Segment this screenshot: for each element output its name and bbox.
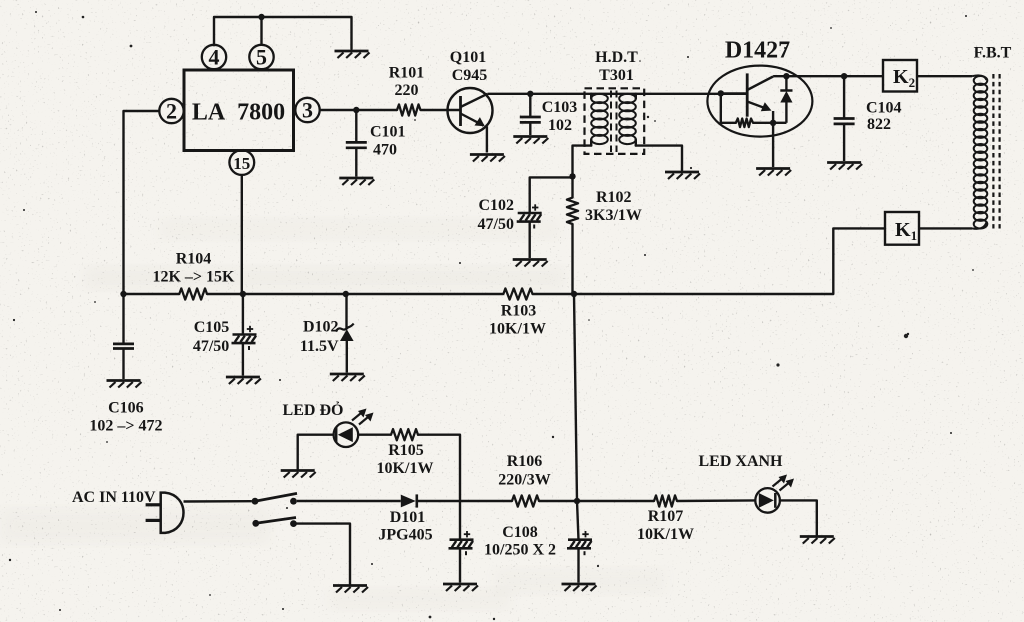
- svg-text:C105: C105: [194, 319, 230, 336]
- svg-text:C945: C945: [452, 67, 488, 84]
- capacitor C108a polarized: [449, 531, 474, 555]
- resistor base-emitter inside D1427: [721, 93, 773, 127]
- label C108 value: [484, 542, 556, 559]
- wire C104 upper: [843, 76, 845, 118]
- label T301: [599, 67, 634, 84]
- wire LED-DO to R105: [358, 434, 391, 436]
- resistor R105: [391, 429, 418, 440]
- ground T301 secondary: [665, 172, 700, 179]
- transistor D1427 base bar: [746, 73, 749, 116]
- junction bottom bus node: [574, 498, 580, 504]
- label C105 value: [193, 338, 229, 355]
- label D1427: [725, 38, 790, 64]
- label R103: [501, 303, 537, 320]
- svg-text:220/3W: 220/3W: [498, 472, 550, 489]
- resistor R103: [503, 288, 532, 299]
- relay contact K1 box: [885, 212, 919, 245]
- wire bus R103 to node: [533, 293, 575, 295]
- junction C101 tap: [353, 107, 359, 113]
- svg-text:220: 220: [395, 82, 419, 99]
- svg-text:Q101: Q101: [450, 49, 486, 66]
- svg-text:C102: C102: [478, 197, 514, 214]
- ground C102: [513, 260, 548, 267]
- label R106: [507, 453, 543, 470]
- label C103: [542, 99, 578, 116]
- wire C106 lower: [122, 349, 124, 380]
- transistor Q101 base bar: [459, 96, 462, 126]
- ground D102: [330, 374, 365, 381]
- label R105: [388, 442, 424, 459]
- wire C101 lower: [355, 148, 357, 177]
- pin 15 circle: [229, 150, 254, 175]
- resistor R102 vertical: [567, 198, 578, 224]
- label R104 value: [152, 269, 235, 286]
- svg-text:102: 102: [548, 117, 572, 134]
- wire top net pins 4-5 to ground: [214, 17, 352, 49]
- wire R101 to Q101 base: [421, 109, 461, 111]
- label C102: [478, 197, 514, 214]
- svg-text:JPG405: JPG405: [378, 527, 432, 544]
- wire D101 to R106: [417, 500, 512, 502]
- wire bus D102 to R103: [346, 293, 504, 295]
- svg-text:R102: R102: [596, 189, 632, 206]
- wire R106 to R107: [539, 500, 654, 502]
- capacitor C105 polarized: [232, 326, 257, 350]
- ground D1427 emitter: [756, 169, 791, 176]
- wire switch top to D101: [297, 500, 401, 502]
- wire T301 primary bottom to node: [573, 146, 592, 177]
- svg-text:3K3/1W: 3K3/1W: [585, 207, 642, 224]
- led LED-XANH light arrows: [773, 475, 795, 491]
- led LED-XANH body: [755, 488, 780, 513]
- label R102: [596, 189, 632, 206]
- svg-text:10K/1W: 10K/1W: [377, 460, 434, 477]
- label R107: [648, 508, 684, 525]
- label C102 value: [478, 216, 514, 233]
- junction bus left C106: [120, 291, 126, 297]
- capacitor C101: [346, 142, 367, 147]
- led LED-DO triangle: [336, 427, 353, 442]
- svg-text:R106: R106: [507, 453, 543, 470]
- ground top-right of LA7800: [335, 51, 370, 58]
- svg-text:15: 15: [233, 154, 250, 173]
- svg-text:10K/1W: 10K/1W: [489, 321, 546, 338]
- wire K1 to FBT: [919, 227, 972, 229]
- svg-text:H.D.T: H.D.T: [595, 49, 638, 66]
- ground C108a: [443, 584, 478, 591]
- svg-text:D102: D102: [303, 319, 339, 336]
- wire pin 15 riser: [241, 175, 243, 294]
- svg-text:822: 822: [867, 116, 891, 133]
- svg-text:C106: C106: [108, 400, 144, 417]
- svg-text:D101: D101: [390, 509, 426, 526]
- wire D1427 collector to K2: [773, 75, 883, 77]
- junction bus D102: [343, 291, 349, 297]
- flyback FBT core lines: [993, 74, 999, 229]
- svg-text:102 –> 472: 102 –> 472: [89, 418, 162, 435]
- svg-text:R104: R104: [176, 251, 212, 268]
- label Q101 part: [452, 67, 488, 84]
- wire K2 to FBT: [917, 75, 972, 77]
- label H.D.T: [595, 49, 638, 66]
- wire R102 to bus: [571, 224, 573, 294]
- resistor R104: [179, 288, 207, 299]
- transistor Q101 body: [448, 88, 493, 133]
- ground LED-DO: [281, 471, 316, 478]
- transformer T301 core lines: [611, 91, 617, 153]
- wire C105 lower: [242, 343, 244, 375]
- wire LED-DO left to ground: [298, 435, 334, 469]
- scan smudge bands: [0, 218, 665, 610]
- diode damper inside D1427: [773, 76, 792, 123]
- transistor D1427 collector: [747, 77, 773, 91]
- junction bus main node: [571, 291, 577, 297]
- svg-text:3: 3: [302, 98, 313, 123]
- wire K1 to bus: [833, 228, 885, 294]
- capacitor C103: [520, 117, 541, 122]
- svg-text:47/50: 47/50: [478, 216, 514, 233]
- pin 4 circle: [202, 45, 226, 70]
- wire D102 upper: [345, 294, 347, 329]
- wire Q101 collector to D1427 base: [488, 93, 748, 95]
- capacitor C104: [834, 119, 855, 124]
- transformer T301 primary winding: [591, 94, 608, 146]
- label R107 value: [637, 526, 694, 543]
- junction C104 tap: [841, 73, 847, 79]
- switch S1a: [252, 493, 297, 504]
- svg-text:D1427: D1427: [725, 38, 790, 64]
- wire R105 to DC node: [418, 435, 460, 501]
- svg-text:T301: T301: [599, 67, 634, 84]
- wire C108b lower: [577, 548, 579, 582]
- resistor R107: [654, 495, 677, 506]
- resistor R106: [512, 495, 539, 506]
- label D101 part: [378, 527, 432, 544]
- wire R107 to LED XANH: [677, 499, 756, 502]
- svg-text:470: 470: [373, 142, 397, 159]
- svg-text:10/250 X 2: 10/250 X 2: [484, 542, 556, 559]
- svg-text:2: 2: [166, 99, 177, 124]
- wire C102 lower: [529, 222, 531, 258]
- label LED DO: [283, 400, 344, 419]
- pin 2 circle: [159, 99, 183, 124]
- svg-text:C104: C104: [866, 100, 902, 117]
- led LED-XANH triangle: [759, 493, 776, 508]
- wire bus segment left: [124, 293, 180, 295]
- svg-text:4: 4: [209, 45, 220, 70]
- ground C105: [226, 377, 261, 384]
- svg-text:R101: R101: [389, 65, 425, 82]
- wire C108b upper: [577, 501, 579, 540]
- wire D102 lower: [346, 341, 348, 373]
- plug AC body: [161, 493, 184, 533]
- label R101: [389, 65, 425, 82]
- label C103 value: [548, 117, 572, 134]
- wire D1427 base link: [721, 92, 747, 94]
- junction D1427 base: [718, 90, 724, 96]
- transistor D1427 outline: [707, 66, 812, 137]
- svg-text:AC IN 110V: AC IN 110V: [72, 489, 156, 506]
- label C108: [502, 524, 538, 541]
- label R102 value: [585, 207, 642, 224]
- transformer T301 secondary winding: [619, 94, 636, 146]
- svg-text:R105: R105: [388, 442, 424, 459]
- wire pin 5 riser: [260, 17, 262, 45]
- junction top net above pin 5: [258, 14, 264, 20]
- wire C108a upper: [459, 501, 461, 540]
- svg-text:5: 5: [256, 45, 267, 70]
- label R105 value: [377, 460, 434, 477]
- transistor D1427 emitter: [747, 102, 773, 123]
- ground Q101 emitter: [470, 155, 505, 162]
- resistor R101: [397, 104, 421, 115]
- wire C105 upper: [242, 294, 244, 335]
- label D102: [303, 319, 339, 336]
- svg-text:12K –> 15K: 12K –> 15K: [152, 269, 235, 286]
- transistor Q101 collector: [461, 94, 488, 107]
- wire C108a lower: [459, 548, 461, 582]
- svg-text:10K/1W: 10K/1W: [637, 526, 694, 543]
- wire C103 upper: [529, 94, 531, 117]
- label LED XANH: [698, 453, 783, 470]
- label F.B.T: [974, 45, 1012, 62]
- svg-text:C108: C108: [502, 524, 538, 541]
- wire C104 lower: [843, 124, 845, 161]
- svg-text:F.B.T: F.B.T: [974, 45, 1012, 62]
- flyback FBT winding: [972, 75, 987, 228]
- capacitor C108b polarized: [567, 531, 592, 555]
- label R101 value: [395, 82, 419, 99]
- wire pin 2 to left bus: [124, 111, 160, 294]
- label R106 value: [498, 472, 550, 489]
- ground AC return: [333, 586, 368, 593]
- ic U1 LA 7800 body: [184, 70, 294, 151]
- plug AC prongs: [146, 505, 161, 521]
- wire bus R104 to pin15: [207, 293, 243, 295]
- label C106 value: [89, 418, 162, 435]
- svg-text:R107: R107: [648, 508, 684, 525]
- svg-text:47/50: 47/50: [193, 338, 229, 355]
- wire LED-XANH to ground: [780, 500, 817, 535]
- ground C104: [827, 163, 862, 170]
- label C101 value: [373, 142, 397, 159]
- ground C106: [107, 381, 142, 388]
- label C104: [866, 100, 902, 117]
- capacitor C102 polarized: [517, 204, 542, 228]
- wire T301 secondary bottom to ground: [636, 146, 682, 171]
- wire C103 lower: [529, 122, 531, 135]
- label C105: [194, 319, 230, 336]
- junction bus pin15/C105: [240, 291, 246, 297]
- junction C103 tap: [527, 91, 533, 97]
- wire bus pin15 to D102: [243, 293, 346, 295]
- transistor Q101 emitter: [461, 114, 487, 153]
- label AC IN 110V: [72, 489, 156, 506]
- junction T301 bottom node: [569, 173, 575, 179]
- wire bus node down to bottom bus: [574, 294, 577, 501]
- wire node to R102: [571, 176, 573, 197]
- ground C103: [513, 137, 548, 144]
- ground C108b: [562, 584, 597, 591]
- capacitor C106: [113, 344, 134, 349]
- label D101: [390, 509, 426, 526]
- label Q101: [450, 49, 486, 66]
- junction D1427 emitter node: [770, 120, 776, 126]
- diode zener D102: [336, 324, 354, 341]
- ground C101: [339, 178, 374, 185]
- label C101: [370, 124, 406, 141]
- label C104 value: [867, 116, 891, 133]
- svg-text:LED ĐỎ: LED ĐỎ: [283, 400, 344, 419]
- label D102 value: [300, 338, 339, 355]
- svg-text:LED XANH: LED XANH: [698, 453, 783, 470]
- svg-text:C101: C101: [370, 124, 406, 141]
- svg-text:C103: C103: [542, 99, 578, 116]
- wire D1427 emitter to ground: [772, 123, 774, 167]
- pin 3 circle: [295, 98, 319, 123]
- led LED-DO light arrows: [352, 409, 374, 425]
- switch S1b: [252, 518, 296, 527]
- svg-text:R103: R103: [501, 303, 537, 320]
- wire C106 upper: [122, 294, 124, 344]
- diode D101: [401, 494, 417, 507]
- led LED-DO body: [334, 422, 359, 447]
- wire bus node to K1 corner: [574, 293, 833, 295]
- svg-text:LA 7800: LA 7800: [192, 100, 285, 126]
- wire switch bottom to ground: [297, 524, 350, 584]
- relay contact K2 box: [883, 60, 917, 92]
- wire C102 branch: [530, 177, 573, 213]
- wire pin 3 to R101: [320, 109, 397, 111]
- label R104: [176, 251, 212, 268]
- wire plug to switch top: [184, 500, 252, 503]
- label R103 value: [489, 321, 546, 338]
- junction damper diode top: [783, 73, 789, 79]
- ground LED-XANH: [800, 537, 835, 544]
- svg-text:11.5V: 11.5V: [300, 338, 339, 355]
- pin 5 circle: [249, 45, 273, 70]
- label C106: [108, 400, 144, 417]
- transformer T301 dashed box: [585, 88, 645, 154]
- wire C101 upper: [355, 110, 357, 142]
